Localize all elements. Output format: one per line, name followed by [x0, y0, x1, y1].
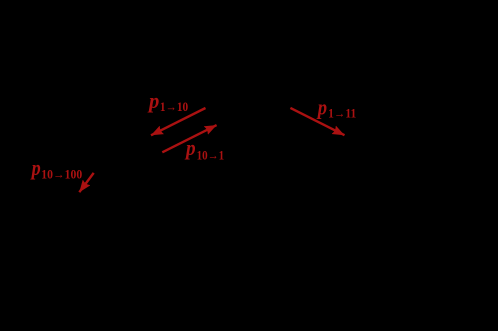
svg-text:10→1: 10→1 [197, 148, 225, 162]
svg-text:1→11: 1→11 [328, 106, 356, 120]
svg-text:p: p [184, 135, 195, 160]
svg-text:p: p [147, 88, 159, 113]
svg-text:1→10: 1→10 [160, 100, 188, 114]
svg-text:p: p [316, 94, 327, 119]
svg-text:p: p [30, 155, 41, 180]
svg-text:10→100: 10→100 [41, 167, 82, 181]
